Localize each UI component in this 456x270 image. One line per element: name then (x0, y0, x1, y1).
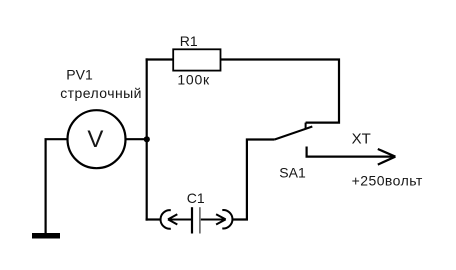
connector socket right arc (222, 210, 232, 228)
wire bus vertical (146, 58, 148, 220)
svg-text:+250вольт: +250вольт (352, 172, 423, 188)
terminal XT arrow (307, 147, 396, 165)
resistor R1 (173, 49, 220, 70)
wire ground to PV1 (46, 139, 68, 233)
switch SA1 fixed contact pin (305, 123, 307, 130)
wire R1 to SA1 fixed contact (221, 60, 340, 123)
switch SA1 lever (275, 127, 313, 140)
svg-text:V: V (87, 126, 103, 153)
svg-text:R1: R1 (180, 33, 198, 49)
capacitor C1 (192, 207, 200, 233)
wire bus top to R1 (146, 58, 174, 60)
wire PV1 to node A (126, 138, 147, 140)
svg-text:SA1: SA1 (279, 165, 306, 181)
voltmeter PV1 (68, 110, 126, 168)
ground (32, 233, 60, 239)
svg-text:C1: C1 (187, 190, 205, 206)
wire SA1 left contact down to C1 socket (232, 140, 274, 220)
svg-text:XT: XT (352, 131, 371, 148)
connector pin left arrow (168, 214, 191, 224)
wire bus bottom to C1 socket (146, 218, 161, 220)
svg-text:PV1: PV1 (66, 67, 93, 83)
connector socket left arc (161, 210, 171, 229)
svg-text:100к: 100к (177, 71, 210, 87)
node A junction (144, 136, 150, 142)
svg-text:стрелочный: стрелочный (60, 85, 142, 101)
connector pin right arrow (201, 214, 226, 224)
